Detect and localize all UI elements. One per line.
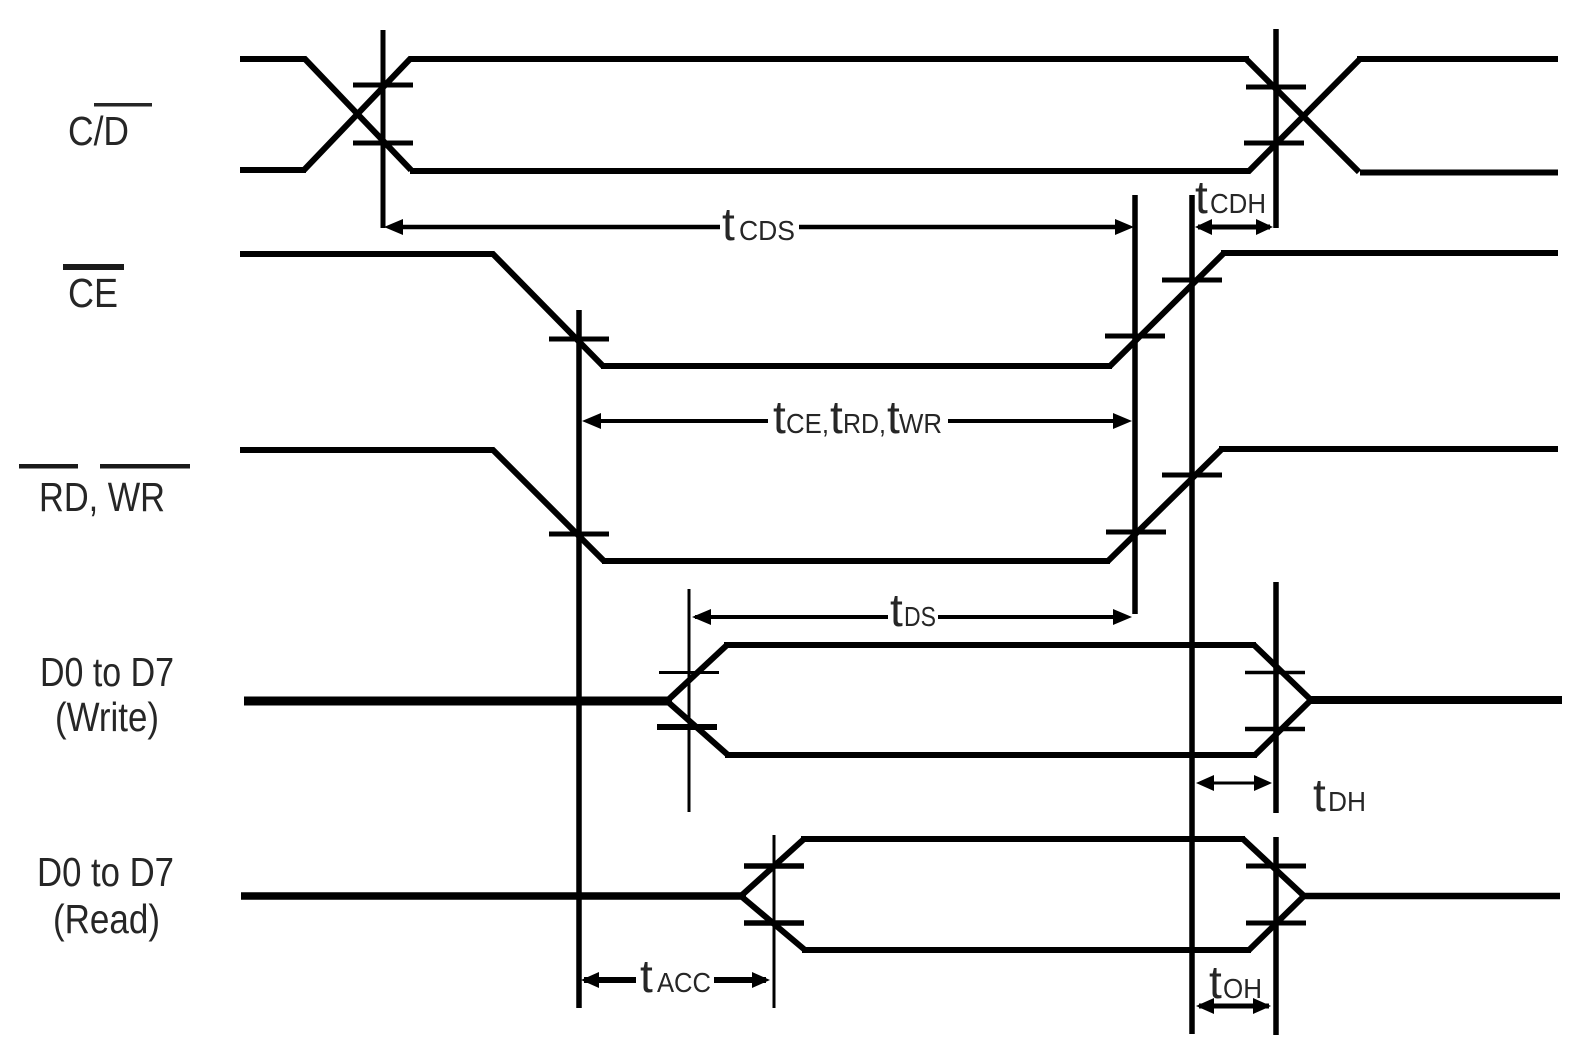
svg-text:t: t [830,391,843,443]
tCDH left arrowhead [1195,219,1212,235]
wire: CE left high rail [240,251,494,257]
wire: C/D left crossover rising edge [304,58,411,170]
svg-text:CE: CE [68,270,118,316]
svg-text:(Write): (Write) [55,694,159,740]
tOH left arrowhead [1196,998,1214,1014]
dimension tACC arrow line [584,977,636,983]
wire: write mid line left [244,697,672,706]
svg-text:t: t [1209,956,1222,1008]
wire: read bus opening lower diagonal [742,897,805,950]
svg-text:D0 to D7: D0 to D7 [40,649,174,695]
node label CE with overline [63,264,124,316]
dimension tDS arrow line [695,615,888,619]
dimension vertical x=1135 [1132,195,1138,614]
tick on RD/WR rising edge at x=1135 [1106,530,1166,535]
value label tDS [890,584,936,636]
tCE right arrowhead [1113,413,1132,429]
dimension vertical x=1276 middle segment [1273,582,1279,813]
tDS left arrowhead [692,609,711,625]
svg-text:D0 to D7: D0 to D7 [37,849,174,895]
dimension vertical at x=1276 top segment (C/D change) [1273,29,1279,228]
dimension tCE,tRD,tWR arrow line [587,419,768,423]
wire: C/D left crossover falling edge [304,58,411,170]
tACC right arrowhead [752,972,770,988]
value label tCE,tRD,tWR [773,391,942,443]
value label tCDH [1195,171,1266,223]
svg-text:OH: OH [1223,973,1262,1004]
signal RD,WR waveform [240,449,1558,561]
wire: C/D middle low rail [410,168,1250,174]
wire: CE falling edge [492,253,603,366]
wire: write bus bottom rail [725,752,1257,758]
signal C/D waveform [240,58,1558,173]
tCDS right arrowhead [1115,219,1134,235]
svg-text:CE,: CE, [786,408,829,439]
wire: write bus top rail [724,642,1256,648]
tick on RD/WR falling edge at x=579 [549,532,609,537]
wire: RD/WR low rail [602,558,1110,564]
svg-text:t: t [722,198,735,250]
node label C/D with overline [68,103,152,154]
wire: C/D left low rail [240,167,306,173]
dimension tDH arrow line [1200,782,1268,785]
signal D0-D7 (Read) waveform [241,839,1560,950]
tick on RD/WR rising edge at x=1192 [1162,473,1222,478]
wire: write bus opening upper diagonal [668,645,727,700]
wire: CE low rail [601,363,1112,369]
ticks on write bus closing [1245,671,1305,675]
wire: write bus opening lower diagonal [668,702,728,755]
svg-text:t: t [640,950,653,1002]
ticks on read bus opening [744,863,804,869]
tick on CE falling edge at x=579 [549,337,609,342]
wire: C/D left high rail [240,56,306,62]
svg-text:DH: DH [1328,786,1366,817]
svg-text:t: t [890,584,903,636]
tACC left arrowhead [581,972,599,988]
wire: write mid line right [1308,696,1562,704]
wire: RD/WR falling edge [492,449,604,561]
signal CE waveform [240,253,1558,366]
wire: read bus bottom rail [802,947,1251,953]
value label tACC [640,950,711,1002]
node label RD, WR with overlines [19,464,190,520]
wire: read mid line right [1301,893,1560,900]
svg-text:RD, WR: RD, WR [39,474,165,520]
wire: C/D right crossover rising edge [1248,59,1360,172]
svg-text:C/D: C/D [68,108,129,154]
dimension tCDS arrow line [390,225,720,230]
tDS right arrowhead [1113,609,1132,625]
tick on CE rising edge at x=1192 [1162,278,1222,283]
wire: CE rising edge [1110,253,1224,366]
tick marks on C/D right crossover [1246,85,1306,90]
value label tDH [1313,769,1366,821]
tCDS left arrowhead [384,219,403,235]
wire: read bus closing upper diagonal [1243,839,1303,895]
wire: read bus closing lower diagonal [1249,897,1303,950]
thin vertical x=774 (tACC reference) [773,835,776,1008]
ticks on write bus opening [659,671,719,674]
value label tCDS [722,198,795,250]
dimension tCDH arrow line [1198,225,1270,230]
wire: RD/WR rising edge [1108,449,1222,561]
svg-text:CDH: CDH [1210,188,1266,219]
node label D0 to D7 (Read) [37,849,174,942]
tCE left arrowhead [582,413,601,429]
node label D0 to D7 (Write) [40,649,174,740]
svg-text:DS: DS [904,601,936,632]
arrowheads [384,219,1273,1014]
tOH right arrowhead [1253,998,1271,1014]
tCDH right arrowhead [1256,219,1273,235]
svg-text:t: t [1313,769,1326,821]
svg-text:CDS: CDS [739,215,795,246]
dimension vertical x=579 [576,310,582,1008]
wire: RD/WR left high rail [240,447,494,453]
wire: read bus opening upper diagonal [742,839,804,895]
dimension vertical x=1192 [1189,195,1195,1034]
svg-text:t: t [1195,171,1208,223]
ticks on read bus closing [1246,864,1306,869]
svg-text:t: t [773,391,786,443]
tick on CE rising edge at x=1135 [1105,334,1165,339]
wire: C/D right low rail [1360,170,1558,176]
dimension vertical at x=383 (C/D valid start) [381,30,386,228]
dimension tOH arrow line [1199,1004,1269,1009]
wire: C/D right crossover falling edge [1246,59,1359,172]
tick marks on C/D left crossover [353,83,413,88]
wire: read mid line left [241,892,746,900]
svg-text:(Read): (Read) [53,896,160,942]
wire: C/D middle high rail [409,56,1249,62]
value label tOH [1209,956,1262,1008]
wire: RD/WR right high rail [1219,446,1558,452]
dimension vertical x=1276 bottom segment [1273,837,1279,1035]
wire: read bus top rail [801,836,1245,842]
tDH left arrowhead [1196,775,1214,791]
svg-text:WR: WR [899,408,942,439]
svg-text:RD,: RD, [843,408,886,439]
signal D0-D7 (Write) waveform [244,645,1562,755]
tDH right arrowhead [1254,775,1272,791]
wire: write bus closing upper diagonal [1254,645,1310,699]
thin vertical x=689 (tDS reference) [688,589,691,812]
wire: CE right high rail [1221,250,1558,256]
wire: write bus closing lower diagonal [1255,701,1310,755]
wire: C/D right high rail [1357,56,1558,62]
svg-text:ACC: ACC [657,967,711,998]
